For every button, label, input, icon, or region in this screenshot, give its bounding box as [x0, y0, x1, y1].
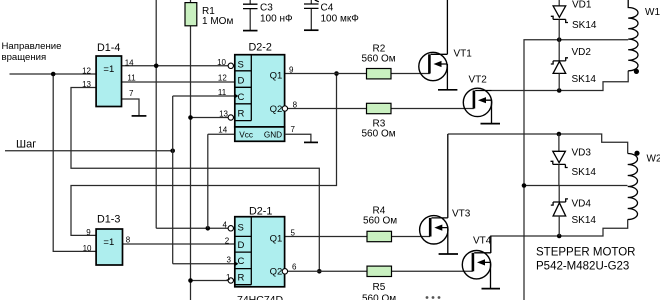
wire: D1-4 pin 11 output to D2-2 D pin 12: [122, 81, 235, 83]
wire: Шаг input line: [5, 150, 173, 152]
svg-text:Vcc: Vcc: [239, 131, 253, 140]
wire: to D2-1 C pin 3: [173, 263, 235, 265]
svg-text:VT3: VT3: [452, 209, 471, 220]
flip-flop D2-1: [223, 206, 297, 300]
svg-text:560 Ом: 560 Ом: [363, 216, 397, 227]
svg-text:Шаг: Шаг: [16, 138, 36, 150]
wire: D2-2 pin 14 Vcc down: [207, 134, 209, 228]
wire: D1-3 pin 8 output to D2-1 D pin 2: [123, 243, 235, 245]
svg-text:Q2: Q2: [270, 266, 283, 277]
svg-text:Q1: Q1: [270, 233, 283, 244]
winding W1: [628, 0, 660, 74]
continuation dots: [426, 296, 429, 299]
svg-text:W1: W1: [645, 7, 660, 18]
svg-text:7: 7: [129, 89, 134, 98]
node: junction pin14 D2-2 Vcc: [206, 226, 211, 231]
resistor R2: [362, 44, 396, 79]
wire: Q2 D2-2 through R3 to VT2 gate: [288, 108, 474, 110]
wire: D1-4 pin 13 loop (line A) from XOR input to x=319: [71, 88, 319, 272]
transistor VT1: [419, 0, 472, 90]
svg-text:=1: =1: [103, 237, 114, 248]
capacitor C3: [243, 0, 293, 31]
svg-text:1: 1: [226, 273, 231, 282]
wire: clock vertical to both C pins: [172, 96, 174, 264]
node: supply to W2 tap junction: [522, 183, 527, 188]
diode VD2: [551, 47, 597, 91]
svg-text:C: C: [238, 256, 245, 267]
node: VD4 bottom junction: [557, 234, 562, 239]
svg-text:8: 8: [126, 236, 131, 245]
node: VD2 bottom junction: [557, 88, 562, 93]
pin inversion circles D2-1: [228, 226, 233, 231]
resistor R1: [185, 3, 233, 27]
svg-text:VT1: VT1: [454, 49, 473, 60]
node: junction on direction line: [51, 72, 56, 77]
node: W2 polarity dot: [634, 151, 639, 156]
node: R line junction upper: [188, 115, 193, 120]
node: Vcc junction: [154, 64, 159, 69]
svg-text:R5: R5: [373, 282, 386, 293]
node: Шаг junction: [170, 149, 175, 154]
svg-text:VD4: VD4: [572, 199, 592, 210]
node: Q2-6 branch junction: [317, 269, 322, 274]
wire: Vcc vertical from top: [155, 0, 157, 228]
wire: D2-2 pin 14 into box: [208, 133, 235, 135]
svg-text:10: 10: [217, 58, 226, 67]
flip-flop D2-2: [217, 42, 318, 143]
svg-text:14: 14: [125, 58, 134, 67]
svg-text:5: 5: [291, 229, 296, 238]
svg-text:560 Ом: 560 Ом: [362, 54, 396, 65]
diode VD3: [551, 134, 597, 186]
node: Q1 branch junction: [334, 71, 339, 76]
wire: VT3 drain line to W2 top: [448, 134, 628, 154]
svg-text:VT4: VT4: [473, 236, 492, 247]
svg-text:C: C: [238, 92, 245, 103]
pin number labels D1-3: [83, 228, 131, 253]
wire: Vcc to D2-1 S pin 4: [156, 227, 229, 229]
svg-text:SK14: SK14: [572, 167, 597, 178]
svg-text:100 мкФ: 100 мкФ: [321, 14, 360, 25]
resistor R4: [363, 206, 397, 242]
wire: branch to D1-3 pin 10: [53, 74, 96, 251]
svg-text:11: 11: [218, 88, 227, 97]
winding W2: [628, 151, 660, 220]
svg-text:=1: =1: [103, 64, 114, 75]
svg-text:10: 10: [83, 244, 92, 253]
wire: Q1 D2-2 through R2 to VT1 gate: [285, 73, 430, 75]
wire: to D2-1 R pin 1: [191, 280, 230, 282]
svg-text:13: 13: [82, 80, 91, 89]
svg-text:100 нФ: 100 нФ: [260, 14, 293, 25]
svg-text:D: D: [238, 240, 245, 251]
wire: VT2 drain to VD2 bottom and W1 bottom: [492, 71, 629, 91]
svg-text:SK14: SK14: [572, 20, 597, 31]
svg-text:W2: W2: [647, 154, 660, 165]
wire: Vcc line pin 14 D1-4 to D2-2 S pin 10: [122, 65, 230, 67]
wire: W2 centre tap: [524, 185, 628, 187]
svg-text:Направление: Направление: [2, 41, 62, 52]
svg-text:7: 7: [291, 125, 296, 134]
svg-text:Q2: Q2: [270, 104, 283, 115]
svg-text:Q1: Q1: [270, 71, 283, 82]
svg-text:D2-2: D2-2: [249, 42, 272, 54]
wire: Направление input to D1-4 pin 12: [10, 73, 97, 75]
wire: Q1 D2-1 through R4 to VT3 gate: [285, 236, 431, 238]
svg-text:2: 2: [225, 237, 230, 246]
svg-text:560 Ом: 560 Ом: [362, 129, 396, 140]
svg-text:C3: C3: [260, 3, 273, 14]
svg-text:12: 12: [82, 67, 91, 76]
svg-text:P542-M482U-G23: P542-M482U-G23: [536, 261, 629, 273]
ground: D2-2 pin 7: [304, 141, 318, 143]
clock edge mark D2-2: [235, 94, 239, 99]
svg-text:GND: GND: [264, 131, 282, 140]
svg-text:D1-3: D1-3: [97, 214, 120, 226]
capacitor C4: [304, 0, 359, 30]
wire: W2 bottom to VT4 drain: [491, 220, 628, 254]
wire: D1-4 pin 7 to ground: [122, 99, 140, 116]
pin inversion circles D2-2: [228, 63, 233, 68]
resistor R5: [362, 266, 396, 300]
node: W1 tap junction VD1-VD2: [557, 37, 562, 42]
svg-text:R: R: [238, 108, 245, 119]
svg-text:VT2: VT2: [469, 75, 488, 86]
svg-text:6: 6: [292, 262, 297, 271]
svg-text:9: 9: [86, 228, 91, 237]
svg-text:S: S: [238, 59, 244, 70]
svg-text:560 Ом: 560 Ом: [362, 294, 396, 300]
node: W1 polarity dot: [634, 69, 639, 74]
svg-text:8: 8: [293, 101, 298, 110]
svg-text:VD3: VD3: [572, 148, 592, 159]
ground: D1-4 pin 7: [132, 115, 147, 117]
transistor VT3: [420, 134, 471, 254]
svg-text:9: 9: [289, 66, 294, 75]
svg-text:SK14: SK14: [572, 215, 597, 226]
XOR gate D1-3: [96, 214, 122, 266]
clock edge mark D2-1: [235, 262, 239, 267]
svg-text:D2-1: D2-1: [249, 206, 272, 218]
svg-text:D1-4: D1-4: [97, 42, 120, 54]
node: R line junction lower: [188, 278, 193, 283]
svg-text:VD2: VD2: [572, 47, 592, 58]
svg-text:вращения: вращения: [2, 52, 47, 63]
svg-text:11: 11: [127, 74, 136, 83]
transistor VT4: [462, 236, 500, 289]
svg-text:1 МОм: 1 МОм: [202, 16, 233, 27]
svg-text:VD1: VD1: [572, 0, 592, 11]
wire: Q2 D2-1 through R5 to VT4 gate: [288, 270, 473, 272]
wire: R1 vertical line: [190, 0, 192, 300]
transistor VT2: [463, 75, 500, 124]
svg-text:13: 13: [219, 110, 228, 119]
XOR gate D1-4: [96, 42, 121, 107]
resistor R3: [362, 103, 396, 139]
wire: D2-2 pin 7 GND to ground: [285, 134, 311, 142]
diode VD1: [551, 0, 597, 61]
svg-text:D: D: [238, 76, 245, 87]
node: VD3 top junction: [557, 132, 562, 137]
svg-text:4: 4: [223, 220, 228, 229]
svg-text:R: R: [238, 272, 245, 283]
svg-text:14: 14: [218, 125, 227, 134]
pin number labels D1-4: [82, 58, 136, 98]
svg-text:3: 3: [227, 256, 232, 265]
svg-text:74HC74D: 74HC74D: [237, 294, 284, 300]
wire: to D2-2 R pin 13: [191, 117, 230, 119]
diode VD4: [551, 186, 597, 237]
wire: to D2-2 C pin 11: [173, 95, 235, 97]
wire: W1 centre tap to supply vertical: [524, 40, 628, 300]
svg-text:C4: C4: [321, 3, 334, 14]
svg-text:S: S: [238, 222, 244, 233]
svg-text:SK14: SK14: [572, 74, 597, 85]
svg-text:12: 12: [218, 74, 227, 83]
wire: line B from Q1 of D2-2 to D1-3 pin 9: [71, 74, 337, 236]
svg-text:STEPPER MOTOR: STEPPER MOTOR: [536, 247, 635, 259]
